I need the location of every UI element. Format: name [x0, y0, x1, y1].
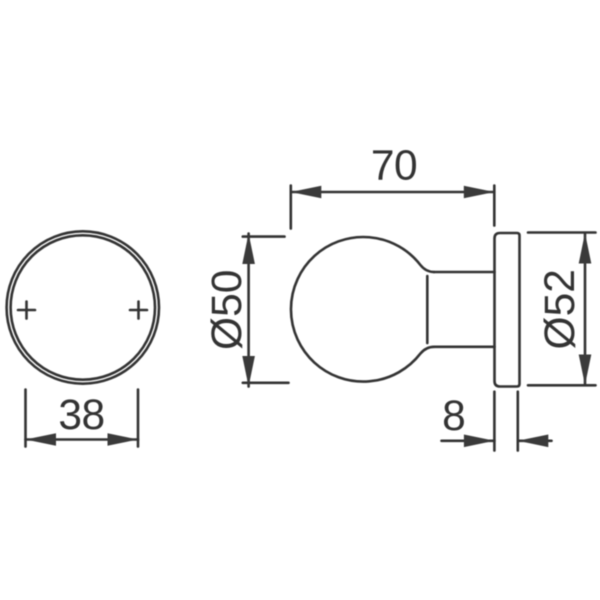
dimension D50: top extension line	[243, 235, 285, 238]
right screw-hole cross mark	[130, 302, 147, 319]
dimension D50: top arrowhead	[242, 234, 255, 265]
svg-text:70: 70	[371, 143, 417, 190]
svg-text:38: 38	[58, 392, 104, 439]
neck bottom line	[434, 345, 495, 348]
dimension 8: right tail line	[518, 439, 552, 442]
dimension 38: left extension line	[24, 390, 27, 447]
dimension D50: bottom arrowhead	[242, 356, 255, 387]
dimension 38: right extension line	[137, 390, 140, 447]
dimension D50: bottom extension line	[243, 381, 289, 384]
dimension 8: right extension line	[516, 392, 519, 451]
svg-text:Ø50: Ø50	[204, 270, 251, 350]
dimension 70: right extension line	[493, 186, 496, 226]
dimension 70: left arrowhead	[291, 186, 322, 199]
dimension D52: top arrowhead	[579, 233, 592, 264]
knob ball outline (side view)	[291, 237, 434, 382]
dimension D52: bottom arrowhead	[579, 355, 592, 386]
dimension 38: right arrowhead	[108, 433, 139, 446]
dimension 70: left extension line	[289, 186, 292, 229]
dimension 70: dimension line	[291, 191, 495, 194]
ball/neck junction vertical line	[426, 276, 429, 343]
svg-text:8: 8	[442, 393, 466, 440]
rose plate (side view)	[495, 233, 520, 387]
rose inner circle (front view)	[11, 235, 155, 379]
rose outer circle (front view)	[7, 231, 159, 383]
neck top line	[434, 271, 495, 274]
dimension 8: left arrowhead	[464, 435, 495, 448]
left screw-hole cross mark	[18, 302, 35, 319]
dimension 70: right arrowhead	[464, 186, 495, 199]
dimension 38: dimension line	[26, 438, 139, 441]
svg-text:Ø52: Ø52	[537, 269, 584, 349]
dimension 8: right arrowhead	[518, 435, 549, 448]
dimension 8: left tail line	[442, 439, 495, 442]
dimension D50: dimension line	[247, 234, 250, 387]
dimension D52: top extension line	[528, 231, 596, 234]
dimension 8: left extension line	[493, 392, 496, 451]
dimension 38: left arrowhead	[26, 433, 57, 446]
dimension D52: dimension line	[584, 233, 587, 385]
dimension D52: bottom extension line	[528, 384, 596, 387]
